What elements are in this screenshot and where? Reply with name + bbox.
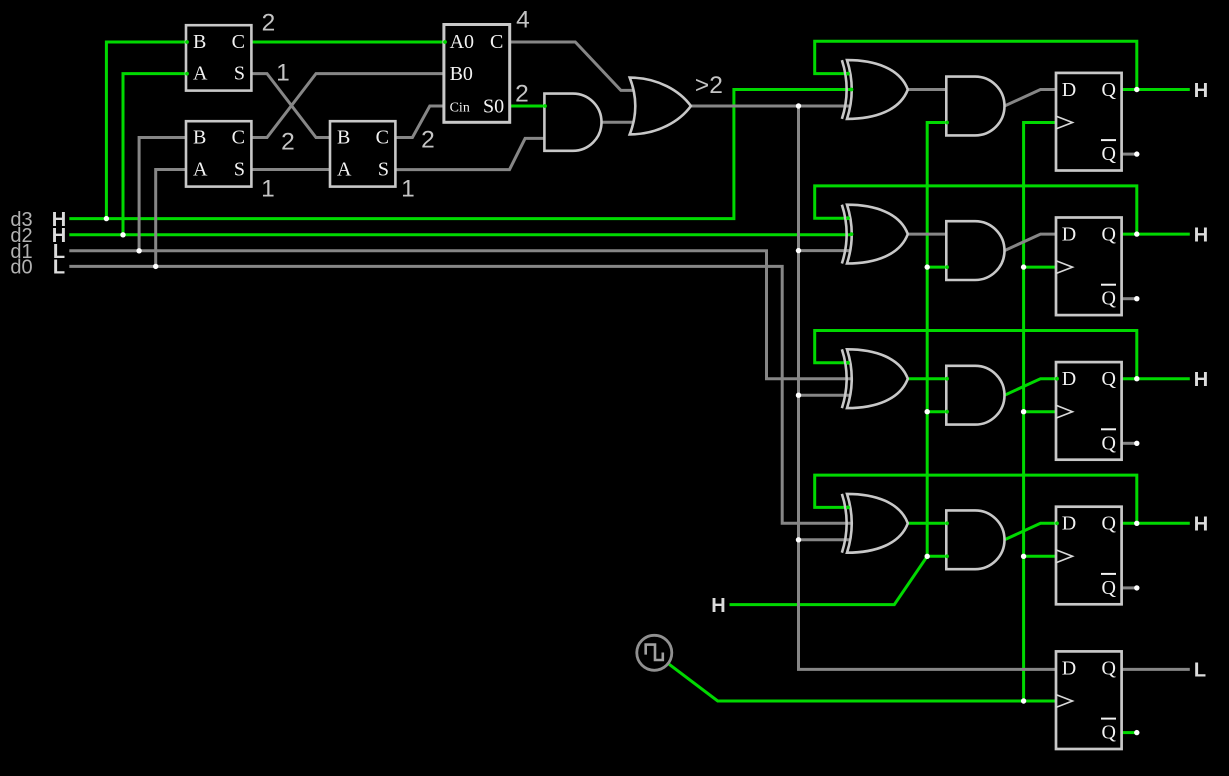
svg-text:H: H (1194, 369, 1208, 391)
svg-text:4: 4 (516, 7, 530, 34)
svg-text:A: A (337, 159, 352, 181)
svg-text:L: L (1194, 660, 1206, 682)
svg-text:S: S (234, 63, 245, 85)
svg-text:B: B (337, 127, 350, 149)
svg-text:2: 2 (515, 81, 529, 108)
svg-text:1: 1 (261, 176, 275, 203)
svg-text:Q: Q (1102, 513, 1117, 535)
svg-text:H: H (1194, 224, 1208, 246)
svg-text:Q: Q (1102, 722, 1117, 744)
svg-text:A0: A0 (450, 31, 474, 53)
svg-text:2: 2 (421, 127, 435, 154)
svg-text:Q: Q (1102, 79, 1117, 101)
svg-text:B0: B0 (450, 63, 473, 85)
svg-text:C: C (376, 127, 389, 149)
svg-text:Q: Q (1102, 288, 1117, 310)
svg-text:1: 1 (276, 59, 290, 86)
svg-text:2: 2 (262, 10, 276, 37)
svg-text:D: D (1062, 657, 1076, 679)
svg-text:Q: Q (1102, 223, 1117, 245)
svg-text:D: D (1062, 79, 1076, 101)
svg-text:S: S (378, 159, 389, 181)
svg-text:C: C (232, 31, 245, 53)
svg-text:C: C (490, 31, 503, 53)
svg-text:B: B (193, 127, 206, 149)
svg-text:Q: Q (1102, 368, 1117, 390)
svg-text:C: C (232, 127, 245, 149)
svg-text:d0: d0 (10, 257, 32, 279)
svg-text:S0: S0 (483, 96, 504, 118)
svg-text:D: D (1062, 368, 1076, 390)
svg-text:A: A (193, 63, 208, 85)
svg-text:D: D (1062, 223, 1076, 245)
svg-text:H: H (1194, 80, 1208, 102)
svg-text:1: 1 (401, 176, 415, 203)
svg-text:Q: Q (1102, 577, 1117, 599)
svg-text:Q: Q (1102, 143, 1117, 165)
svg-text:D: D (1062, 513, 1076, 535)
svg-text:Q: Q (1102, 657, 1117, 679)
svg-text:H: H (1194, 514, 1208, 536)
svg-text:L: L (53, 257, 65, 279)
svg-text:B: B (193, 31, 206, 53)
svg-text:S: S (234, 159, 245, 181)
svg-text:2: 2 (281, 129, 295, 156)
svg-text:>2: >2 (695, 72, 723, 99)
svg-text:Cin: Cin (450, 100, 470, 115)
svg-text:A: A (193, 159, 208, 181)
svg-text:H: H (711, 595, 725, 617)
svg-text:Q: Q (1102, 432, 1117, 454)
